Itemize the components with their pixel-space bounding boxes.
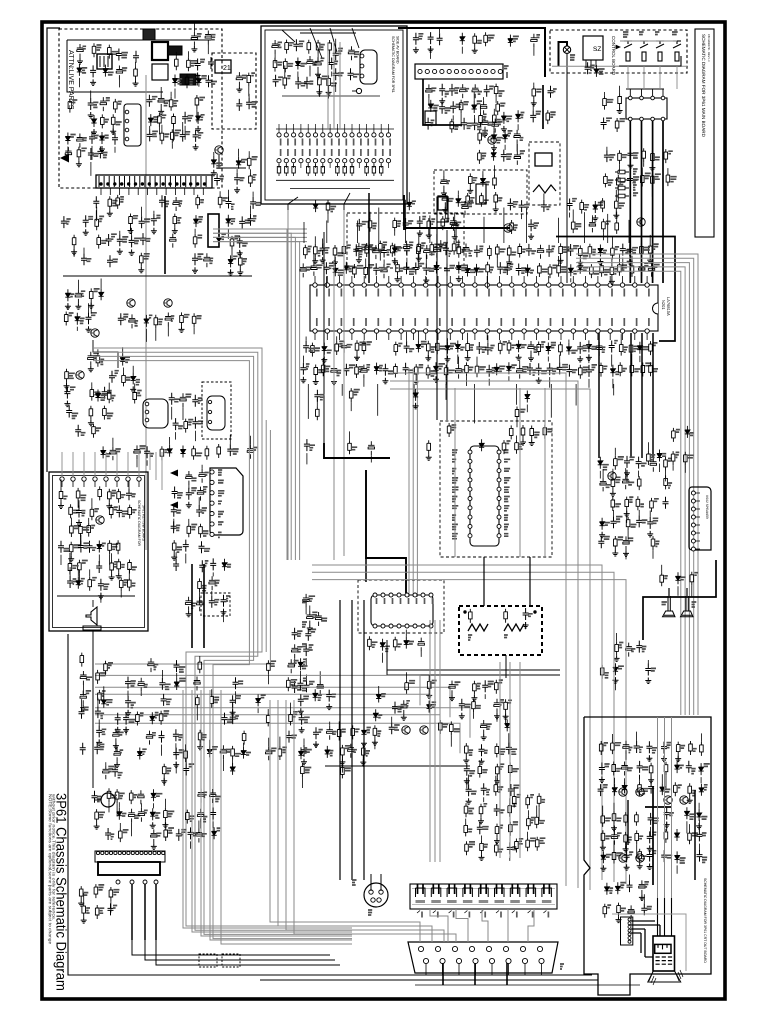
wire xyxy=(314,236,316,244)
resistor R244 xyxy=(537,793,541,807)
resistor R196 xyxy=(469,609,473,623)
capacitor C198 xyxy=(197,597,203,611)
pin stub down xyxy=(572,333,574,340)
capacitor C316 xyxy=(661,850,667,862)
wire xyxy=(286,700,444,942)
label side AV board 2 xyxy=(396,36,399,63)
ground xyxy=(613,677,619,683)
transistor V806 xyxy=(91,329,99,337)
switch S603 xyxy=(655,32,659,35)
wire xyxy=(90,162,92,176)
diode D15 xyxy=(193,215,198,227)
wire xyxy=(161,670,163,678)
resistor R163 xyxy=(59,489,63,503)
resistor R134 xyxy=(394,364,398,378)
degauss wire b xyxy=(380,874,382,891)
ground xyxy=(158,108,164,114)
speaker connector pin xyxy=(691,507,695,511)
ground xyxy=(117,248,123,254)
transformer pin xyxy=(195,176,197,187)
diode D20 xyxy=(131,372,136,384)
jack pin xyxy=(360,74,364,78)
wire xyxy=(173,128,175,142)
resistor R15 xyxy=(160,130,164,144)
capacitor C157 xyxy=(517,365,523,379)
wire xyxy=(67,147,69,155)
wire xyxy=(351,600,353,880)
capacitor C67 xyxy=(247,445,253,459)
wire xyxy=(284,65,286,75)
diode D73 xyxy=(427,701,432,713)
wire xyxy=(146,460,148,466)
resistor R1 xyxy=(92,43,96,57)
wire xyxy=(576,263,689,715)
switch S604 xyxy=(672,32,678,35)
resistor R218 xyxy=(439,720,443,734)
resistor R233 xyxy=(464,803,468,817)
N201 pin 12 xyxy=(448,283,452,287)
N201 pin 47 xyxy=(534,329,538,333)
N101 pin right xyxy=(497,534,501,538)
heavy vline 2 xyxy=(368,193,370,283)
degauss pin xyxy=(369,890,373,894)
pin xyxy=(628,937,631,940)
resistor R123 xyxy=(457,244,461,258)
CRT heavy line v2 xyxy=(627,800,629,845)
wire xyxy=(211,591,213,596)
resistor R286 xyxy=(611,740,615,754)
capacitor C99 xyxy=(501,150,507,162)
capacitor C96 xyxy=(472,118,478,130)
capacitor C32 xyxy=(204,253,210,267)
capacitor C81 xyxy=(348,46,354,60)
diode D87 xyxy=(137,748,142,760)
capacitor C190 xyxy=(186,488,192,500)
capacitor C123 xyxy=(353,244,359,256)
N201 pin 39 xyxy=(436,329,440,333)
wire xyxy=(643,162,645,167)
pin stub xyxy=(652,89,654,96)
ground xyxy=(76,161,82,167)
AV pin r2 xyxy=(321,159,325,163)
pin stub xyxy=(322,163,324,168)
N101 pin right xyxy=(497,469,501,473)
N101 pin left xyxy=(468,506,472,510)
resistor R277 xyxy=(242,731,246,745)
wire heavy xyxy=(629,121,631,283)
wire xyxy=(636,844,638,857)
capacitor C93 xyxy=(480,101,486,115)
capacitor C296 xyxy=(288,659,294,673)
capacitor C185 xyxy=(186,471,192,485)
wire xyxy=(250,206,252,214)
capacitor C110 xyxy=(403,241,409,255)
wire xyxy=(194,431,196,441)
wire xyxy=(91,146,93,160)
capacitor C118 xyxy=(567,199,573,211)
resistor R287 xyxy=(612,762,616,776)
wire xyxy=(297,72,299,81)
resistor R177 xyxy=(119,577,123,591)
wire xyxy=(249,436,251,445)
speaker connector pin xyxy=(691,523,695,527)
wire xyxy=(494,165,496,175)
wire xyxy=(630,338,632,342)
wire xyxy=(238,149,240,157)
connector cell 4 xyxy=(463,888,473,897)
wire xyxy=(493,126,495,131)
resistor R191 xyxy=(509,425,513,439)
capacitor C95 xyxy=(450,101,456,113)
STR pin 2 xyxy=(125,119,129,123)
wire xyxy=(649,511,651,517)
wire xyxy=(629,235,631,245)
side AV board outer box xyxy=(261,26,407,204)
resistor R21 xyxy=(173,214,177,228)
key pin xyxy=(82,477,86,481)
resistor R235 xyxy=(495,842,499,856)
wire xyxy=(618,254,620,261)
wire xyxy=(305,658,307,666)
ground xyxy=(237,250,243,256)
transformer pin xyxy=(180,176,182,187)
capacitor C10 xyxy=(205,31,211,45)
capacitor C202 xyxy=(317,680,323,694)
wire xyxy=(614,448,616,456)
capacitor C175 xyxy=(87,541,93,553)
tuner pin xyxy=(462,69,466,73)
cell gray bar xyxy=(416,900,426,903)
capacitor C140 xyxy=(373,263,379,275)
pin xyxy=(628,925,631,928)
transformer pin xyxy=(190,176,192,187)
capacitor C100 xyxy=(514,130,520,144)
STR pin 4 xyxy=(125,137,129,141)
diode D97 xyxy=(699,763,704,775)
capacitor C5 xyxy=(116,49,122,61)
wire xyxy=(70,518,72,523)
pin stub up xyxy=(572,276,574,283)
capacitor C66 xyxy=(109,371,115,383)
resistor R238 xyxy=(508,763,512,777)
capacitor C90 xyxy=(472,84,478,98)
dashed box small below P702 xyxy=(201,593,230,616)
diode D89 xyxy=(298,658,303,670)
wire xyxy=(309,70,311,76)
wire xyxy=(182,407,184,420)
resistor R205 xyxy=(625,497,629,511)
wire xyxy=(306,675,308,681)
wire xyxy=(641,168,643,173)
wire xyxy=(404,200,406,243)
micro N701 body xyxy=(98,862,160,875)
switch resistor xyxy=(675,52,679,61)
wire xyxy=(185,744,187,748)
resistor R293 xyxy=(601,813,605,827)
N201 pin 56 xyxy=(645,329,649,333)
P901 heavy wires xyxy=(631,921,660,957)
capacitor C108 xyxy=(356,243,362,257)
diode D30 xyxy=(501,112,506,124)
wire xyxy=(412,368,414,597)
wire xyxy=(526,208,528,243)
capacitor C290 xyxy=(297,678,303,690)
wire xyxy=(290,703,292,712)
wire xyxy=(626,511,628,523)
resistor R247 xyxy=(535,837,539,851)
resistor R265 xyxy=(96,670,100,684)
N201 pin 25 xyxy=(608,283,612,287)
resistor R69 xyxy=(479,113,483,127)
wire xyxy=(374,739,376,749)
wire xyxy=(627,531,629,540)
capacitor C279 xyxy=(161,694,167,706)
wire xyxy=(210,690,352,940)
capacitor C52 xyxy=(118,313,124,325)
resistor R201 xyxy=(636,496,640,510)
ground xyxy=(128,228,134,234)
degauss pin xyxy=(377,898,381,902)
N301 pin top xyxy=(413,593,417,597)
capacitor C219 xyxy=(623,475,629,489)
pin stub down xyxy=(535,333,537,340)
dsub pin row2 xyxy=(456,958,461,963)
capacitor C35 xyxy=(83,215,89,227)
wire LED down xyxy=(566,53,568,283)
capacitor C283 xyxy=(194,677,200,691)
wire xyxy=(509,798,511,802)
diode D44 xyxy=(598,245,603,257)
N301 pin bottom xyxy=(381,624,385,628)
dsub label xyxy=(560,964,564,969)
transformer pin xyxy=(139,176,141,187)
STR pin 1 xyxy=(125,110,129,114)
wire xyxy=(160,87,162,94)
wire xyxy=(434,620,436,862)
pin stub up xyxy=(425,276,427,283)
ground xyxy=(372,739,378,745)
resistor R26 xyxy=(239,255,243,269)
wire xyxy=(575,384,577,406)
heater dash row xyxy=(656,960,673,962)
capacitor C306 xyxy=(598,784,604,796)
diode D77 xyxy=(376,691,381,703)
wire xyxy=(365,259,367,265)
transformer pin xyxy=(144,176,146,187)
diode D75 xyxy=(373,709,378,721)
video transistor R2 xyxy=(636,788,644,796)
X601 top pin 4 xyxy=(661,96,665,100)
capacitor C79 xyxy=(304,77,310,89)
resistor R80 xyxy=(393,218,397,232)
pin xyxy=(130,880,134,884)
dsub pin row2 xyxy=(473,958,478,963)
IR receiver U601 xyxy=(583,36,603,60)
capacitor C207 xyxy=(292,681,298,693)
resistor R284 xyxy=(599,741,603,755)
wire xyxy=(128,569,130,578)
heavy +B path xyxy=(324,443,390,458)
ground xyxy=(116,573,122,579)
ground xyxy=(494,778,500,784)
cell pin a xyxy=(511,884,513,894)
capacitor C171 xyxy=(361,365,367,379)
wire xyxy=(115,743,117,752)
AV pin r1 xyxy=(372,133,376,137)
coil L472 xyxy=(504,624,524,631)
resistor R121 xyxy=(611,245,615,259)
degauss connector P801 xyxy=(364,883,388,907)
wire xyxy=(132,366,134,373)
diode D59 xyxy=(586,340,591,352)
capacitor C105 xyxy=(403,218,409,230)
wire heavy xyxy=(131,884,133,940)
wire xyxy=(169,437,171,445)
diode D42 xyxy=(525,264,530,276)
N101 pin left xyxy=(468,469,472,473)
capacitor C144 xyxy=(404,262,410,274)
resistor R49 xyxy=(160,446,164,460)
resistor R180 xyxy=(88,577,92,591)
resistor R271 xyxy=(162,764,166,778)
N201 pin 6 xyxy=(374,283,378,287)
capacitor C128 xyxy=(424,245,430,259)
wire xyxy=(475,964,477,975)
N101 pin left xyxy=(468,459,472,463)
capacitor C227 xyxy=(401,700,407,714)
diode D88 xyxy=(101,696,106,708)
wire xyxy=(326,221,328,244)
capacitor C292 xyxy=(299,713,305,725)
wire xyxy=(509,856,511,861)
P702 pin xyxy=(210,480,214,484)
pin stub up xyxy=(585,276,587,283)
wire xyxy=(584,212,586,243)
resistor R278 xyxy=(266,712,270,726)
wire xyxy=(95,210,97,221)
ground xyxy=(493,206,499,212)
wire xyxy=(619,164,621,173)
wire diagonal 1 xyxy=(288,197,298,210)
pin stub up xyxy=(499,276,501,283)
resistor R149 xyxy=(649,362,653,376)
N201 pin 10 xyxy=(424,283,428,287)
resistor R258 xyxy=(107,788,111,802)
stub xyxy=(127,481,129,487)
pin stub xyxy=(662,89,664,96)
N201 pin 1 xyxy=(313,283,317,287)
ground xyxy=(179,326,185,332)
sound pair transistor 2 xyxy=(420,726,428,734)
wire xyxy=(482,909,488,942)
ground xyxy=(195,73,201,79)
diode D48 xyxy=(344,262,349,274)
wire xyxy=(98,719,100,725)
capacitor C244 xyxy=(481,783,487,795)
diode D64 xyxy=(97,541,102,553)
wire xyxy=(108,802,110,812)
pin stub xyxy=(388,163,390,168)
wire diagonal 2 xyxy=(344,193,350,210)
diode D91 xyxy=(230,763,235,775)
wire xyxy=(406,672,408,680)
resistor R112 xyxy=(518,244,522,258)
wire xyxy=(239,251,241,255)
transformer pin xyxy=(159,176,161,187)
ground xyxy=(321,357,327,363)
AV pin r2 xyxy=(335,159,339,163)
AV pin r1 xyxy=(321,133,325,137)
diode D3 xyxy=(196,75,201,87)
capacitor C243 xyxy=(494,804,500,816)
ground xyxy=(501,126,507,132)
resistor R183 xyxy=(128,577,132,591)
resistor R82 xyxy=(379,241,383,255)
capacitor C320 xyxy=(628,905,634,919)
diode D99 xyxy=(699,784,704,796)
tuner pin xyxy=(491,69,495,73)
filter winding xyxy=(107,56,109,67)
resistor R171 xyxy=(109,505,113,519)
transistor V602 xyxy=(504,224,512,232)
capacitor C83 xyxy=(348,68,354,80)
wire xyxy=(108,383,110,390)
wire AC left drop xyxy=(67,40,163,92)
pin stub down xyxy=(609,333,611,340)
capacitor C114 xyxy=(627,174,633,186)
audio transistor xyxy=(608,472,616,480)
arrow in control xyxy=(616,45,620,49)
ground xyxy=(624,864,630,870)
connector cell 8 xyxy=(526,888,536,897)
tuner label xyxy=(504,66,509,69)
wire xyxy=(430,909,448,942)
resistor R150 xyxy=(465,362,469,376)
ground xyxy=(597,259,603,265)
ground xyxy=(627,258,633,264)
diode D102 xyxy=(697,809,702,821)
capacitor C155 xyxy=(547,363,553,375)
resistor R47 xyxy=(96,353,100,367)
resistor R156 xyxy=(498,340,502,354)
capacitor C173 xyxy=(98,579,104,591)
wire xyxy=(468,775,470,785)
pin stub xyxy=(329,163,331,168)
wire xyxy=(175,552,177,559)
N101 pin right xyxy=(497,506,501,510)
resistor R306 xyxy=(603,904,607,918)
wire xyxy=(116,803,118,816)
stub xyxy=(695,532,700,534)
wire xyxy=(318,89,320,97)
diode D25 xyxy=(167,445,172,457)
capacitor C61 xyxy=(169,393,175,405)
ground xyxy=(361,740,367,746)
left arrow xyxy=(60,154,69,163)
wire heavy xyxy=(662,121,664,283)
diode D37 xyxy=(594,65,599,77)
wire xyxy=(76,327,78,331)
wire xyxy=(173,519,175,531)
capacitor C309 xyxy=(624,850,630,862)
ground xyxy=(494,838,500,844)
capacitor C197 xyxy=(210,558,216,570)
wire xyxy=(443,170,445,176)
AV pin r1 xyxy=(284,133,288,137)
pin xyxy=(628,940,631,943)
AV pin r2 xyxy=(357,159,361,163)
capacitor C138 xyxy=(537,245,543,259)
